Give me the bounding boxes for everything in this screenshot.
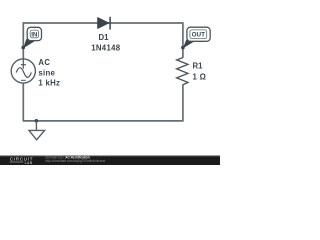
flag OUT inner box [190, 30, 207, 39]
diode D1 triangle [98, 18, 109, 29]
watermark bar [0, 156, 220, 165]
wire bottom horizontal [23, 120, 184, 122]
svg-text:http://circuitlab.com/c/q5g75/: http://circuitlab.com/c/q5g75/5mlrdv/acr… [46, 159, 106, 163]
voltage source V1 circle [11, 59, 35, 83]
svg-text:D1: D1 [99, 33, 110, 42]
flag OUT tail [183, 40, 194, 49]
svg-text:AC: AC [38, 58, 50, 67]
flag IN inner box [30, 30, 38, 38]
ground junction dot [35, 119, 39, 123]
svg-text:1N4148: 1N4148 [91, 43, 120, 52]
sine wave [16, 68, 31, 78]
wire top horizontal [23, 22, 183, 24]
wire right vertical lower [182, 85, 184, 121]
minus sign [21, 79, 26, 81]
wire right vertical upper [182, 22, 184, 58]
flag IN anchor dot [21, 46, 25, 50]
wire left vertical upper [22, 22, 24, 59]
diode D1 cathode bar [109, 17, 111, 30]
svg-text:1 Ω: 1 Ω [193, 72, 207, 81]
flag IN tail [23, 39, 34, 49]
ground stub [35, 121, 37, 131]
plus sign [21, 60, 26, 69]
ground triangle [29, 130, 45, 139]
svg-text:LAB: LAB [25, 161, 33, 165]
logo lines [10, 162, 24, 163]
flag OUT anchor dot [181, 46, 185, 50]
flag OUT outer box [187, 27, 210, 41]
svg-text:OUT: OUT [192, 32, 205, 39]
resistor R1 zigzag [177, 58, 188, 85]
wire left vertical lower [22, 83, 24, 121]
svg-text:1 kHz: 1 kHz [38, 79, 60, 88]
svg-text:IN: IN [31, 31, 38, 38]
svg-text:sine: sine [38, 68, 55, 77]
flag IN outer box [27, 27, 41, 40]
svg-text:R1: R1 [193, 62, 204, 71]
